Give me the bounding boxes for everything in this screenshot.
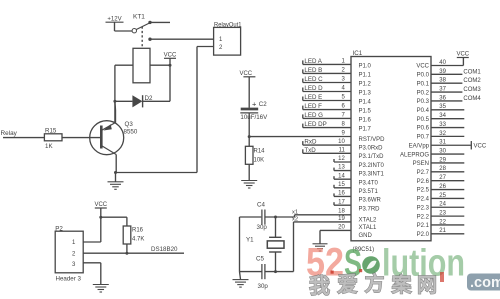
wire R14-gnd xyxy=(248,164,250,180)
svg-text:P2.3: P2.3 xyxy=(417,205,430,211)
svg-text:Q3: Q3 xyxy=(125,121,134,128)
svg-text:P3.3INT1: P3.3INT1 xyxy=(359,172,385,178)
svg-text:P0.1: P0.1 xyxy=(417,81,430,87)
pin 38 P0.1 / net COM2 xyxy=(417,78,482,88)
pin 11 P3.1/TxD / net TxD xyxy=(303,147,384,160)
svg-text:2: 2 xyxy=(341,68,345,74)
label 89C51 xyxy=(353,247,375,253)
pin 36 P0.3 / net COM4 xyxy=(417,95,482,105)
svg-text:P3.1/TxD: P3.1/TxD xyxy=(359,154,385,160)
wire P2 pin1 xyxy=(83,217,101,242)
pin 29 PSEN xyxy=(413,157,465,167)
pin 31 EA/Vpp xyxy=(409,140,471,150)
svg-text:EA/Vpp: EA/Vpp xyxy=(409,143,430,149)
svg-text:案: 案 xyxy=(391,273,413,297)
svg-text:TxD: TxD xyxy=(304,147,316,154)
node D2 anode xyxy=(113,100,116,123)
resistor R14 xyxy=(245,146,265,164)
svg-text:COM1: COM1 xyxy=(463,69,481,75)
svg-text:P2.7: P2.7 xyxy=(417,170,430,176)
svg-text:8: 8 xyxy=(341,122,345,128)
svg-text:10: 10 xyxy=(338,139,345,145)
svg-text:P3.4T0: P3.4T0 xyxy=(359,180,379,186)
pin 22 P2.1 xyxy=(417,219,465,229)
svg-text:P1.1: P1.1 xyxy=(359,73,372,79)
svg-text:P2.2: P2.2 xyxy=(417,214,430,220)
wire P2 pin3 xyxy=(83,263,101,284)
svg-text:P3.5T1: P3.5T1 xyxy=(359,189,379,195)
svg-text:P1.7: P1.7 xyxy=(359,127,372,133)
svg-text:12: 12 xyxy=(338,156,345,162)
svg-text:VCC: VCC xyxy=(474,143,487,149)
svg-text:RST/VPD: RST/VPD xyxy=(359,137,386,143)
diode D2 xyxy=(115,95,170,107)
wire D2 cathode riser xyxy=(169,65,171,101)
pin 10 P3.0RxD / net RxD xyxy=(303,139,383,152)
wire C4 to XTAL2 xyxy=(265,215,351,219)
pin 25 P2.4 xyxy=(417,193,465,203)
resistor R16 xyxy=(123,226,144,244)
pin 34 P0.5 xyxy=(417,113,465,123)
svg-text:C4: C4 xyxy=(257,202,265,209)
net label x1 xyxy=(292,210,298,216)
pin 5 P1.4 / net LED E xyxy=(303,94,372,106)
svg-text:LED D: LED D xyxy=(304,85,323,92)
capacitor C2 xyxy=(240,99,268,121)
svg-text:17: 17 xyxy=(338,199,345,205)
svg-text:19: 19 xyxy=(338,216,345,222)
pin 39 P0.0 / net COM1 xyxy=(417,69,482,79)
wire x2 to XTAL1 xyxy=(294,222,352,272)
svg-text:COM3: COM3 xyxy=(463,87,481,93)
wire R16 bottom xyxy=(125,244,128,255)
svg-text:2: 2 xyxy=(219,45,223,51)
svg-text:30p: 30p xyxy=(257,224,268,231)
svg-text:2: 2 xyxy=(72,252,76,258)
svg-text:COM2: COM2 xyxy=(463,78,481,84)
pin 35 P0.4 xyxy=(417,104,465,114)
pin 30 ALEPROG xyxy=(400,149,464,159)
svg-text:LED A: LED A xyxy=(304,58,322,65)
svg-text:P1.2: P1.2 xyxy=(359,82,372,88)
pin 23 P2.2 xyxy=(417,211,465,221)
svg-text:+: + xyxy=(252,99,257,108)
svg-text:.com: .com xyxy=(470,275,500,291)
crystal Y1 xyxy=(246,217,284,272)
svg-text:13: 13 xyxy=(338,165,345,171)
pin 9 RST/VPD xyxy=(341,131,385,144)
pin 26 P2.5 xyxy=(417,184,465,194)
pin 8 P1.7 / net LED DP xyxy=(303,121,372,133)
svg-text:10K: 10K xyxy=(254,158,265,164)
pin 15 P3.5T1 xyxy=(334,182,379,195)
pin 33 P0.6 xyxy=(417,122,465,132)
svg-text:P2.4: P2.4 xyxy=(417,197,430,203)
svg-text:LED E: LED E xyxy=(304,94,322,101)
svg-text:ALEPROG: ALEPROG xyxy=(400,152,429,158)
node VCC junction xyxy=(99,216,127,226)
ground (IC GND pin) xyxy=(313,244,328,251)
svg-text:VCC: VCC xyxy=(416,64,429,70)
svg-text:VCC: VCC xyxy=(456,52,469,58)
power VCC (reset) xyxy=(239,71,255,108)
pin 2 P1.1 / net LED B xyxy=(303,67,372,79)
svg-text:C2: C2 xyxy=(259,101,267,108)
pin 14 P3.4T0 xyxy=(334,173,379,186)
svg-text:LED C: LED C xyxy=(304,76,323,83)
svg-text:P0.6: P0.6 xyxy=(417,126,430,132)
pin 40 VCC xyxy=(416,60,463,70)
pin 16 P3.6WR xyxy=(334,191,382,204)
ground (P2) xyxy=(93,285,109,293)
pin 12 P3.2INT0 xyxy=(334,156,385,169)
svg-text:20: 20 xyxy=(338,225,345,231)
svg-text:COM4: COM4 xyxy=(463,96,481,102)
svg-text:XTAL1: XTAL1 xyxy=(359,225,378,231)
svg-text:Relay: Relay xyxy=(1,130,18,137)
pin 4 P1.3 / net LED D xyxy=(303,85,372,97)
ground (xtal) xyxy=(233,272,249,288)
pin 18 XTAL2 xyxy=(338,209,377,224)
svg-text:Y1: Y1 xyxy=(246,237,254,244)
svg-text:P1.6: P1.6 xyxy=(359,118,372,124)
svg-text:LED B: LED B xyxy=(304,67,322,74)
pin 19 XTAL1 xyxy=(338,216,377,231)
svg-text:1: 1 xyxy=(219,37,223,43)
svg-text:P1.0: P1.0 xyxy=(359,64,372,70)
net label Relay xyxy=(1,130,45,138)
svg-text:GND: GND xyxy=(359,233,373,239)
relay coil xyxy=(133,48,150,83)
power VCC (coil) xyxy=(164,53,177,66)
watermark chinese 我爱方案网 xyxy=(309,269,444,298)
svg-text:P1.4: P1.4 xyxy=(359,100,372,106)
svg-text:P2.1: P2.1 xyxy=(417,223,430,229)
pin 17 P3.7RD xyxy=(334,199,380,212)
ground (Q3) xyxy=(108,173,124,190)
pin 20 GND xyxy=(320,225,373,244)
svg-text:+12V: +12V xyxy=(107,16,121,22)
svg-text:P3.0RxD: P3.0RxD xyxy=(359,146,384,152)
power VCC (P2) xyxy=(94,202,107,217)
svg-text:15: 15 xyxy=(338,182,345,188)
svg-text:P3.7RD: P3.7RD xyxy=(359,206,381,212)
wire C2-R14 xyxy=(248,113,250,146)
svg-text:P1.3: P1.3 xyxy=(359,91,372,97)
svg-text:1: 1 xyxy=(72,240,76,246)
svg-text:7: 7 xyxy=(341,113,345,119)
op-amp IC1 box xyxy=(351,50,431,241)
svg-text:LED F: LED F xyxy=(304,103,322,110)
svg-text:VCC: VCC xyxy=(164,53,177,59)
svg-text:P0.7: P0.7 xyxy=(417,135,430,141)
svg-text:14: 14 xyxy=(338,173,345,179)
power VCC (pin 40) xyxy=(456,52,469,66)
svg-text:1: 1 xyxy=(341,59,345,65)
svg-text:3: 3 xyxy=(72,262,76,268)
wire P2 pin2 DS18B20 xyxy=(83,246,184,253)
svg-text:16: 16 xyxy=(338,191,345,197)
transistor Q3 xyxy=(90,101,138,172)
svg-text:C5: C5 xyxy=(256,256,264,263)
svg-text:P3.2INT0: P3.2INT0 xyxy=(359,163,385,169)
power +12V xyxy=(106,16,133,31)
svg-text:DS18B20: DS18B20 xyxy=(151,246,178,253)
capacitor C5 xyxy=(256,256,268,291)
svg-text:4.7K: 4.7K xyxy=(132,237,144,243)
resistor R15 xyxy=(44,127,62,150)
svg-text:LED G: LED G xyxy=(304,112,323,119)
wire xtal top xyxy=(240,216,262,218)
svg-text:LED DP: LED DP xyxy=(304,121,326,128)
capacitor C4 xyxy=(257,202,268,232)
svg-text:KT1: KT1 xyxy=(133,14,145,21)
wire RelayOut1 pin2 xyxy=(116,47,214,173)
pin 32 P0.7 xyxy=(417,131,465,141)
svg-text:4: 4 xyxy=(341,86,345,92)
svg-text:18: 18 xyxy=(338,209,345,215)
connector RelayOut1 xyxy=(214,21,242,55)
connector P2 xyxy=(55,226,83,283)
wire coil-VCC xyxy=(150,64,172,67)
svg-text:RxD: RxD xyxy=(304,139,317,146)
svg-text:1K: 1K xyxy=(45,143,53,150)
svg-text:网: 网 xyxy=(417,275,437,297)
svg-text:P2.6: P2.6 xyxy=(417,179,430,185)
svg-text:方: 方 xyxy=(365,272,385,296)
pin 1 P1.0 / net LED A xyxy=(303,58,372,70)
svg-text:x2: x2 xyxy=(292,217,298,223)
wire coil left xyxy=(115,65,133,101)
watermark 52Solution.com xyxy=(306,241,500,292)
svg-text:9: 9 xyxy=(341,131,345,137)
wire R15-base xyxy=(62,137,100,139)
pin 24 P2.3 xyxy=(417,202,465,212)
svg-text:5: 5 xyxy=(341,95,345,101)
ground (R14) xyxy=(241,181,257,189)
svg-text:10uF/16V: 10uF/16V xyxy=(240,114,268,121)
svg-text:P1.5: P1.5 xyxy=(359,109,372,115)
wire reset to pin9 xyxy=(249,136,351,138)
svg-text:P0.4: P0.4 xyxy=(417,108,430,114)
pin 13 P3.3INT1 xyxy=(334,165,385,178)
svg-text:Header 3: Header 3 xyxy=(56,276,82,283)
svg-text:P0.0: P0.0 xyxy=(417,73,430,79)
svg-text:3: 3 xyxy=(341,77,345,83)
pin 3 P1.2 / net LED C xyxy=(303,76,372,88)
svg-text:D2: D2 xyxy=(145,95,153,102)
svg-text:XTAL2: XTAL2 xyxy=(359,218,378,224)
pin 7 P1.6 / net LED G xyxy=(303,112,372,124)
svg-text:8550: 8550 xyxy=(124,129,138,136)
wire xtal left riser xyxy=(239,217,241,272)
svg-text:我: 我 xyxy=(309,275,330,298)
node reset junction xyxy=(248,135,251,138)
svg-text:x1: x1 xyxy=(292,210,298,216)
svg-text:VCC: VCC xyxy=(94,202,107,208)
pin 37 P0.2 / net COM3 xyxy=(417,86,482,96)
svg-text:P2.0: P2.0 xyxy=(417,232,430,238)
svg-text:PSEN: PSEN xyxy=(413,161,429,167)
svg-text:P0.2: P0.2 xyxy=(417,90,430,96)
pin 21 P2.0 xyxy=(417,228,465,238)
svg-text:6: 6 xyxy=(341,104,345,110)
power VCC (pin 31) xyxy=(471,141,487,149)
svg-text:P3.6WR: P3.6WR xyxy=(359,198,382,204)
pin 27 P2.6 xyxy=(417,175,465,185)
svg-text:VCC: VCC xyxy=(239,71,252,77)
pin 28 P2.7 xyxy=(417,166,465,176)
svg-text:P0.5: P0.5 xyxy=(417,117,430,123)
net label x2 xyxy=(292,217,298,223)
node Q3 emitter junction xyxy=(114,171,117,174)
wire xtal bottom xyxy=(240,270,294,273)
svg-text:P2.5: P2.5 xyxy=(417,188,430,194)
svg-text:30p: 30p xyxy=(258,283,269,290)
pin 6 P1.5 / net LED F xyxy=(303,103,372,115)
svg-text:R14: R14 xyxy=(254,149,266,155)
svg-text:爱: 爱 xyxy=(337,274,358,297)
svg-text:11: 11 xyxy=(339,147,346,153)
switch KT1 xyxy=(132,14,214,49)
svg-text:P0.3: P0.3 xyxy=(417,99,430,105)
svg-text:R16: R16 xyxy=(132,228,144,234)
